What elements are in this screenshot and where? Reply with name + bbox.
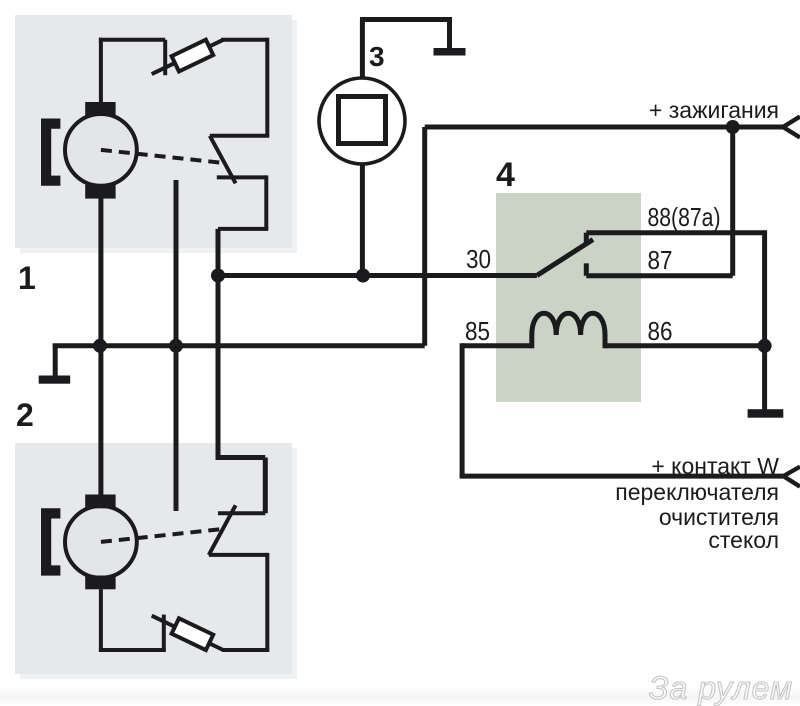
svg-text:4: 4 bbox=[496, 156, 515, 194]
motor M2 armature circle bbox=[65, 506, 137, 578]
junction dot ignition/87 bbox=[726, 120, 740, 134]
wire box1 top horizontal right bbox=[221, 38, 267, 42]
connector chevron ignition bbox=[783, 117, 800, 138]
thermal fuse F1 lead bbox=[152, 40, 224, 74]
thermal fuse F1 body bbox=[172, 40, 214, 72]
wire motor1 to motor2 vertical bbox=[98, 197, 103, 495]
park switch SW2 blade bbox=[209, 505, 236, 555]
fuse holder 3 bottom lead bbox=[360, 163, 365, 276]
wire 88 down to ground bbox=[762, 230, 767, 409]
motor M1 armature circle bbox=[65, 114, 137, 186]
wire 87 up to ignition bbox=[730, 127, 735, 276]
svg-text:переключателя: переключателя bbox=[615, 479, 779, 505]
wire fuse3 to top ground bbox=[360, 17, 450, 22]
svg-text:86: 86 bbox=[648, 316, 673, 346]
park switch SW1 top contact bbox=[210, 134, 269, 138]
wire SW1 bottom horizontal bbox=[218, 227, 268, 231]
svg-text:+ контакт W: + контакт W bbox=[651, 453, 779, 479]
wiper motor assembly box 1 bbox=[20, 20, 297, 253]
ground symbol right bbox=[748, 409, 784, 418]
svg-text:1: 1 bbox=[18, 260, 36, 296]
svg-text:87: 87 bbox=[648, 245, 673, 275]
svg-text:2: 2 bbox=[16, 397, 34, 433]
junction dot switch/30 bbox=[211, 269, 225, 283]
wire SW1 lower contact drop bbox=[264, 175, 268, 229]
fuse holder 3 top lead bbox=[360, 20, 365, 81]
wire supply horizontal y346 bbox=[100, 343, 425, 348]
wire motor1 top riser bbox=[99, 38, 103, 102]
wire drop into box2 switch bbox=[263, 458, 268, 514]
wire SW2 contact drop bbox=[265, 553, 269, 650]
wire switch common vertical bbox=[216, 229, 221, 458]
connector chevron contact W bbox=[783, 467, 800, 487]
wire box2 bottom right horizontal bbox=[222, 648, 269, 652]
wire 88(87a) horizontal bbox=[586, 230, 764, 235]
svg-text:+ зажигания: + зажигания bbox=[649, 97, 779, 123]
box2: wire switch top horizontal bbox=[218, 511, 265, 515]
wire 85 to contact W bbox=[460, 474, 784, 479]
relay coil bbox=[532, 313, 605, 348]
cam linkage dashed line motor2 bbox=[101, 529, 225, 542]
svg-text:За рулем: За рулем bbox=[649, 670, 793, 706]
park switch SW1 lower contact bbox=[217, 175, 266, 179]
motor M1 bottom brush bbox=[85, 185, 115, 199]
relay contact 30 blade bbox=[537, 240, 593, 276]
junction dot motor wire bbox=[93, 339, 107, 353]
ground symbol top bbox=[434, 48, 466, 56]
relay contact 87 tick bbox=[584, 263, 589, 276]
park switch SW1 blade bbox=[210, 136, 236, 184]
svg-text:30: 30 bbox=[466, 244, 491, 274]
wire motor2 bottom drop bbox=[99, 589, 103, 652]
wire jog to box2 switch bbox=[216, 455, 266, 460]
junction dot stub wire bbox=[169, 339, 183, 353]
fuse holder 3 square element bbox=[339, 97, 386, 144]
wire box1 fuse left drop bbox=[163, 40, 167, 75]
wire 30 horizontal bbox=[218, 273, 537, 278]
relay body 4 bbox=[496, 193, 641, 402]
junction dot fuse3/30 bbox=[356, 269, 370, 283]
svg-text:стекол: стекол bbox=[708, 527, 779, 553]
motor M2 top brush bbox=[85, 495, 115, 509]
wire vertical to ignition bbox=[422, 127, 427, 346]
cam linkage dashed line motor1 bbox=[101, 150, 226, 163]
wire box1 top horizontal left bbox=[99, 38, 165, 42]
wire box2 bottom left horizontal bbox=[99, 648, 166, 652]
wire middle stub vertical bbox=[174, 180, 179, 511]
fuse holder 3 circle bbox=[319, 78, 405, 164]
motor M1 top brush bbox=[85, 102, 115, 116]
thermal fuse F2 body bbox=[172, 618, 214, 650]
wiper motor assembly box 2 bbox=[20, 448, 297, 679]
junction dot 86/ground bbox=[758, 339, 772, 353]
motor M2 bottom brush bbox=[85, 576, 115, 590]
wire 86 horizontal bbox=[605, 343, 765, 348]
wire box1 right drop to switch bbox=[265, 38, 269, 136]
svg-text:88(87а): 88(87а) bbox=[648, 202, 721, 232]
thermal fuse F2 lead bbox=[152, 616, 224, 650]
wire ignition horizontal bbox=[425, 125, 783, 130]
wire 87 horizontal bbox=[586, 273, 732, 278]
motor M1 stator bracket bbox=[41, 119, 60, 186]
wire fuse2 riser bbox=[162, 615, 166, 650]
wire 85 horizontal bbox=[462, 343, 532, 348]
ground symbol left bbox=[53, 344, 58, 377]
park switch SW2 lower contact bbox=[209, 553, 267, 557]
svg-text:3: 3 bbox=[369, 41, 385, 72]
wire 85 down bbox=[460, 343, 465, 476]
relay contact 88 tick bbox=[584, 233, 589, 245]
motor M2 stator bracket bbox=[41, 508, 60, 575]
svg-text:85: 85 bbox=[465, 316, 490, 346]
